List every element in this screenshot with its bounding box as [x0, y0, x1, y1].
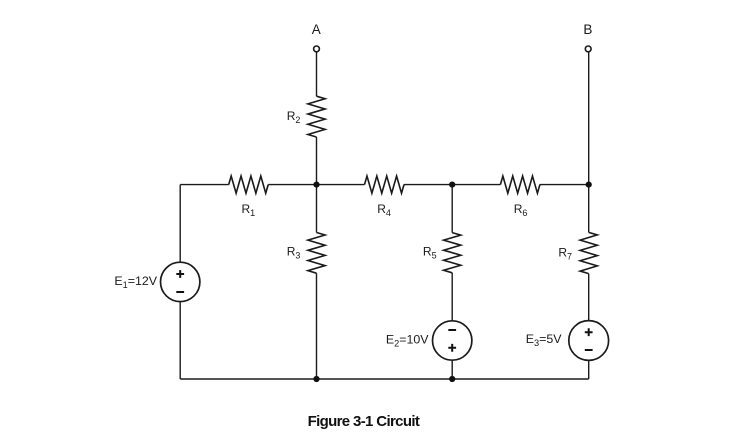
- svg-text:A: A: [312, 22, 321, 37]
- svg-text:E3=5V: E3=5V: [526, 332, 563, 348]
- svg-text:E2=10V: E2=10V: [386, 333, 429, 349]
- svg-text:E1=12V: E1=12V: [114, 274, 157, 290]
- svg-text:Figure 3-1 Circuit: Figure 3-1 Circuit: [308, 413, 420, 430]
- svg-text:B: B: [583, 22, 592, 37]
